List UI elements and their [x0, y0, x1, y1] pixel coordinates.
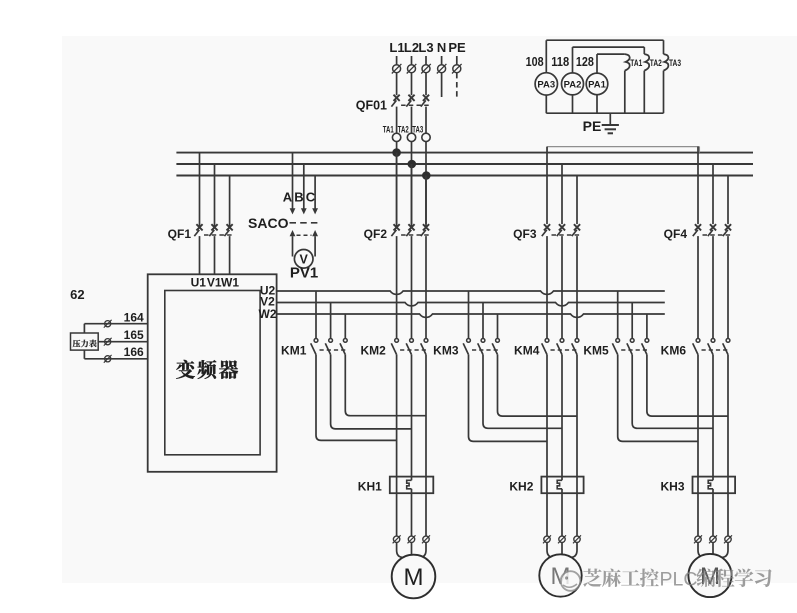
wire: [547, 543, 556, 558]
svg-text:M: M: [404, 564, 424, 591]
wire: [727, 176, 729, 225]
wire KM3-3 to KM4-3: [498, 354, 578, 416]
breaker QF2: [364, 224, 430, 241]
svg-text:166: 166: [124, 345, 144, 359]
terminal motor U: [694, 535, 702, 543]
svg-text:KH3: KH3: [660, 480, 684, 494]
ammeter panel wiring loops: [546, 40, 663, 113]
motor M1: [392, 555, 436, 599]
svg-text:62: 62: [70, 287, 84, 302]
wire: [617, 291, 619, 339]
svg-text:KM1: KM1: [281, 343, 307, 357]
wire: [561, 543, 563, 555]
wire: [720, 543, 729, 558]
wire: [411, 236, 413, 338]
svg-text:SACO: SACO: [248, 215, 289, 231]
terminal PE: [452, 56, 462, 74]
wire: [712, 543, 714, 555]
wire: [292, 153, 294, 209]
wire: [697, 354, 699, 536]
wire N: [441, 73, 443, 97]
svg-text:QF2: QF2: [364, 227, 388, 241]
bus phase B: [176, 163, 753, 165]
wire: [315, 291, 317, 339]
wire: [411, 73, 413, 95]
wire PE: [456, 73, 458, 97]
svg-text:PE: PE: [448, 40, 466, 55]
thermal relay KH2: [509, 477, 583, 494]
svg-text:W1: W1: [221, 276, 239, 290]
terminal 166: [104, 345, 144, 363]
node junction L3-bus: [422, 171, 431, 180]
wire: [425, 142, 427, 227]
wire: [418, 543, 427, 558]
terminal motor V: [558, 535, 566, 543]
voltmeter PV1: [290, 249, 318, 281]
selector switch SACO: [248, 208, 320, 236]
node junction L2-bus: [408, 160, 417, 169]
wire KM3-1 to KM4-1: [469, 354, 548, 441]
wire: [712, 354, 714, 480]
wire: [229, 236, 231, 274]
svg-text:TA1: TA1: [630, 58, 642, 68]
node L1: [389, 40, 404, 55]
wire: [631, 303, 633, 339]
ground PE: [583, 113, 619, 134]
wire: [697, 236, 699, 338]
CT secondary TA1: [625, 54, 643, 71]
node L2: [404, 40, 419, 55]
contactor KM5: [583, 339, 648, 358]
terminal 164: [104, 311, 144, 328]
wire: [229, 176, 231, 228]
wire jumper: [547, 147, 699, 153]
svg-text:118: 118: [551, 54, 569, 69]
wire: [396, 142, 398, 227]
svg-text:KH2: KH2: [509, 480, 533, 494]
svg-text:164: 164: [124, 311, 144, 325]
svg-text:PLC: PLC: [660, 568, 698, 590]
wire: [396, 236, 398, 338]
wire: [697, 147, 699, 225]
wire: [83, 324, 85, 359]
wire: [330, 303, 332, 339]
svg-text:KH1: KH1: [358, 480, 382, 494]
node PE: [448, 40, 466, 55]
wire: [199, 236, 201, 274]
svg-text:KM5: KM5: [583, 343, 609, 357]
wire KM1-2 to KM2-2: [331, 354, 412, 429]
svg-text:A: A: [283, 190, 293, 205]
breaker QF3: [513, 224, 580, 241]
wire KM5-3 to KM6-3: [647, 354, 728, 416]
svg-text:W2: W2: [259, 307, 277, 321]
wire: [561, 236, 563, 338]
wire: [314, 176, 316, 209]
wire: [712, 489, 714, 536]
svg-text:QF1: QF1: [168, 227, 192, 241]
wire: [425, 354, 427, 536]
wire: [411, 543, 413, 556]
terminal motor W: [724, 535, 732, 543]
svg-text:B: B: [294, 190, 303, 205]
ammeter PA1: [586, 73, 608, 95]
thermal relay KH3: [660, 477, 735, 494]
svg-text:QF3: QF3: [513, 227, 537, 241]
wire: [561, 489, 563, 536]
wire KM1-3 to KM2-3: [345, 354, 426, 415]
node N: [437, 40, 446, 55]
motor M3: [688, 554, 731, 597]
contactor KM4: [514, 339, 579, 358]
wire: [425, 73, 427, 95]
pressure gauge 压力表: [71, 333, 99, 350]
bus phase C: [176, 175, 753, 177]
svg-text:M: M: [700, 563, 720, 590]
ammeter PA2: [562, 73, 584, 95]
terminal motor U: [393, 535, 401, 543]
node junction L1-bus: [392, 148, 401, 157]
wire: [396, 73, 398, 95]
wire 166: [84, 358, 147, 360]
wire: [698, 543, 707, 558]
CT TA1: [383, 125, 401, 142]
wire: [727, 236, 729, 338]
wire: [314, 236, 316, 256]
svg-text:TA1: TA1: [383, 125, 394, 135]
svg-text:U1: U1: [191, 276, 207, 290]
ammeter PA3: [535, 73, 557, 95]
breaker QF01: [356, 95, 430, 113]
contactor KM1: [281, 339, 347, 358]
svg-text:L3: L3: [418, 40, 433, 55]
svg-text:V1: V1: [207, 276, 222, 290]
terminal motor U: [543, 535, 551, 543]
wire: [411, 142, 413, 227]
wire: [396, 354, 398, 536]
terminal L1: [392, 56, 402, 74]
wire 164: [84, 323, 147, 325]
svg-text:165: 165: [124, 328, 144, 342]
contactor KM2: [360, 339, 427, 358]
breaker QF4: [664, 224, 732, 241]
svg-text:KM2: KM2: [360, 343, 386, 357]
wire: [344, 314, 346, 339]
svg-text:TA2: TA2: [398, 125, 409, 135]
label A B C: [283, 190, 316, 205]
wire: [497, 314, 499, 339]
breaker QF1: [168, 224, 233, 241]
contactor KM3: [433, 339, 499, 358]
wire: [482, 303, 484, 339]
wire: [712, 164, 714, 224]
wire: [546, 147, 548, 225]
terminal motor V: [709, 535, 717, 543]
wire: [396, 107, 398, 134]
svg-text:L2: L2: [404, 40, 419, 55]
terminal motor W: [573, 535, 581, 543]
wire: [561, 354, 563, 480]
wire: [292, 236, 294, 256]
CT secondary TA2: [644, 54, 662, 71]
wire: [576, 354, 578, 536]
contactor KM6: [661, 339, 730, 358]
thermal relay KH1: [358, 477, 434, 494]
svg-text:TA3: TA3: [669, 58, 681, 68]
VFD U1 inverter box: [148, 274, 277, 472]
svg-text:TA2: TA2: [650, 58, 662, 68]
svg-text:QF4: QF4: [664, 227, 688, 241]
svg-text:108: 108: [526, 54, 544, 69]
wire: [561, 164, 563, 224]
wire: [546, 354, 548, 536]
motor M2: [539, 554, 581, 596]
svg-text:KM6: KM6: [661, 343, 687, 357]
wire: [646, 314, 648, 339]
terminal motor V: [408, 535, 416, 543]
wire: [546, 236, 548, 338]
wire: [199, 153, 201, 227]
svg-text:QF01: QF01: [356, 99, 387, 113]
wire: [727, 354, 729, 536]
CT TA3: [412, 125, 430, 142]
wire KM3-2 to KM4-2: [483, 354, 562, 428]
wire KM5-2 to KM6-2: [632, 354, 713, 428]
wire KM5-1 to KM6-1: [618, 354, 698, 441]
CT secondary TA3: [664, 54, 682, 71]
svg-text:PA2: PA2: [564, 80, 582, 91]
wire KM1-1 to KM2-1: [316, 354, 397, 440]
wire: [214, 236, 216, 274]
wire: [468, 291, 470, 339]
node L3: [418, 40, 433, 55]
svg-text:PV1: PV1: [290, 265, 318, 282]
wire: [411, 107, 413, 134]
terminal motor W: [422, 535, 430, 543]
svg-text:C: C: [306, 190, 316, 205]
wire U2: [277, 291, 664, 294]
wire 165: [98, 341, 148, 343]
svg-text:KM4: KM4: [514, 343, 540, 357]
wire: [214, 164, 216, 227]
wire: [576, 236, 578, 338]
wire: [425, 107, 427, 134]
terminal L2: [407, 56, 417, 74]
svg-text:L1: L1: [389, 40, 404, 55]
wire: [712, 236, 714, 338]
CT TA2: [398, 125, 416, 142]
wire: [303, 164, 305, 209]
wire: [411, 354, 413, 480]
terminal N: [437, 56, 447, 74]
wire: [411, 164, 413, 224]
svg-text:PE: PE: [583, 118, 602, 134]
wire: [411, 489, 413, 536]
terminal 165: [104, 328, 144, 345]
svg-text:KM3: KM3: [433, 343, 459, 357]
svg-text:128: 128: [576, 54, 594, 69]
terminal L3: [421, 56, 431, 74]
svg-text:TA3: TA3: [412, 125, 423, 135]
wire V2: [277, 303, 664, 306]
wire: [425, 176, 427, 225]
wire: [397, 543, 406, 558]
wire: [569, 543, 578, 558]
wire W2: [277, 314, 664, 317]
wire: [425, 236, 427, 338]
svg-text:N: N: [437, 40, 446, 55]
bus phase A: [176, 152, 753, 154]
wire: [396, 153, 398, 225]
svg-text:PA1: PA1: [588, 80, 606, 91]
wire: [576, 176, 578, 225]
svg-text:PA3: PA3: [537, 80, 555, 91]
